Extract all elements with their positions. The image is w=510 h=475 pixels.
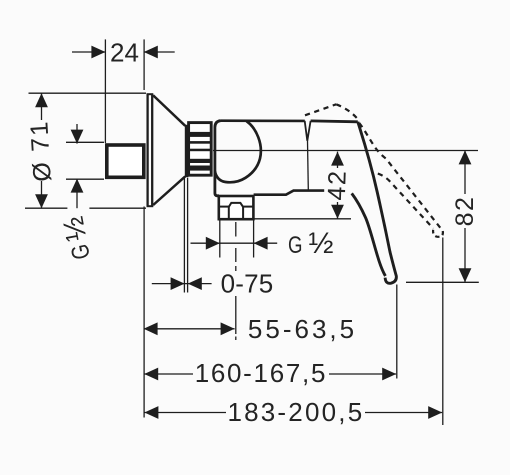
svg-text:G: G bbox=[288, 230, 302, 258]
svg-text:183-200,5: 183-200,5 bbox=[227, 397, 364, 427]
svg-text:24: 24 bbox=[110, 37, 139, 67]
svg-text:0-75: 0-75 bbox=[221, 269, 274, 299]
svg-text:82: 82 bbox=[451, 196, 479, 227]
svg-text:160-167,5: 160-167,5 bbox=[195, 358, 327, 388]
svg-text:42: 42 bbox=[323, 169, 352, 201]
svg-text:55-63,5: 55-63,5 bbox=[248, 314, 357, 344]
svg-text:Ø 71: Ø 71 bbox=[25, 119, 57, 182]
svg-text:½: ½ bbox=[309, 227, 334, 260]
